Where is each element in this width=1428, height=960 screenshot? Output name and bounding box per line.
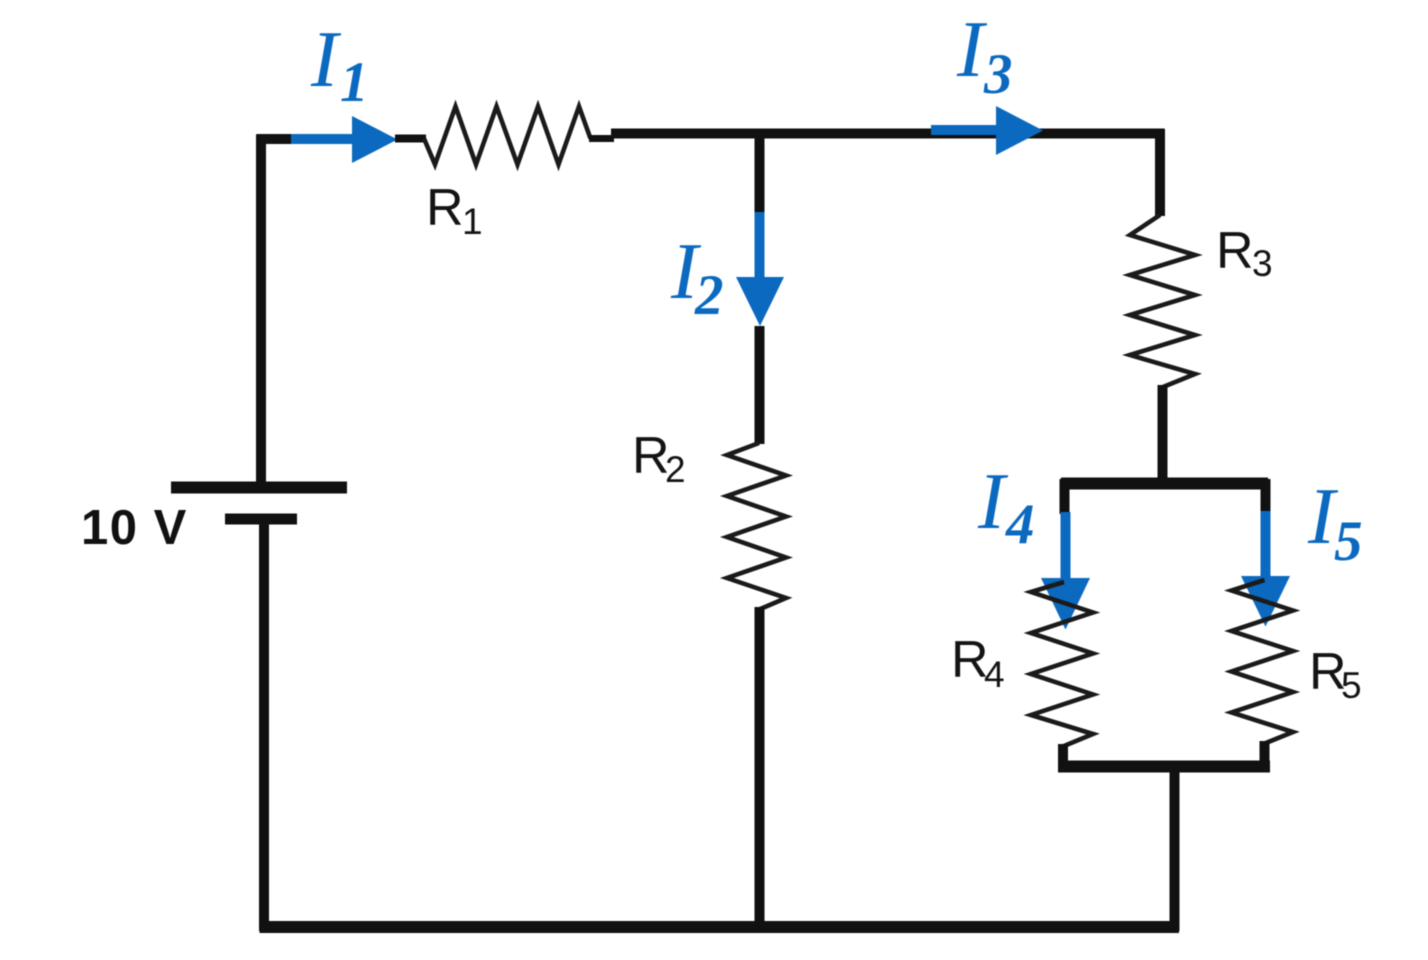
wire: R4 bottom lead (1058, 744, 1068, 766)
wire: bottom horizontal (260, 921, 1180, 933)
wire: left branch top stub (1060, 479, 1070, 514)
svg-text:4: 4 (1005, 493, 1035, 556)
current arrow I4 (1041, 512, 1090, 630)
svg-text:I: I (310, 14, 342, 104)
wire: right branch top stub (1261, 479, 1271, 513)
battery V1 positive plate (long) (171, 482, 347, 494)
wire: short lead into R1 (395, 135, 426, 143)
resistor R3 (1130, 215, 1195, 387)
wire: parallel section bottom bar (1058, 761, 1270, 773)
resistor R5 (1232, 580, 1294, 744)
svg-text:1: 1 (340, 51, 369, 114)
wire: left vertical below battery (259, 519, 269, 931)
svg-text:10 V: 10 V (81, 501, 188, 555)
wire: R1 right lead (589, 135, 614, 142)
current arrow I5 (1241, 511, 1290, 627)
current arrow I2 (736, 212, 784, 326)
wire: parallel section top bar (1061, 478, 1268, 490)
wire: top-left horizontal from battery corner (257, 134, 301, 144)
svg-text:2: 2 (665, 449, 686, 490)
current arrow I3 (931, 106, 1043, 155)
wire: stub from bottom bar down to bottom wire (1170, 763, 1180, 931)
svg-text:1: 1 (462, 201, 483, 242)
svg-text:3: 3 (983, 43, 1013, 106)
svg-text:4: 4 (984, 654, 1005, 695)
wire: R2 branch middle vertical (755, 326, 765, 444)
battery V1 negative plate (short) (225, 514, 297, 525)
svg-text:5: 5 (1341, 665, 1362, 706)
wire: top horizontal to right corner (611, 129, 1165, 139)
current arrow I1 (291, 116, 398, 163)
svg-text:R: R (1216, 222, 1254, 280)
svg-text:R: R (951, 631, 989, 689)
wire: R2 branch lower vertical to bottom wire (755, 607, 765, 931)
svg-text:R: R (426, 179, 464, 237)
resistor R2 (727, 443, 786, 610)
svg-text:2: 2 (694, 264, 724, 327)
svg-text:5: 5 (1334, 510, 1363, 573)
svg-text:I: I (977, 456, 1009, 546)
resistor R4 (1031, 582, 1093, 746)
wire: right vertical down to R3 (1155, 129, 1165, 216)
wire: left vertical above battery (256, 135, 266, 483)
resistor R1 (424, 107, 591, 165)
wire: R2 branch upper vertical (755, 129, 765, 214)
svg-text:R: R (632, 427, 670, 485)
svg-text:3: 3 (1252, 243, 1273, 284)
wire: R5 bottom lead (1260, 741, 1270, 766)
wire: R3 bottom lead to parallel top bar (1158, 385, 1168, 481)
